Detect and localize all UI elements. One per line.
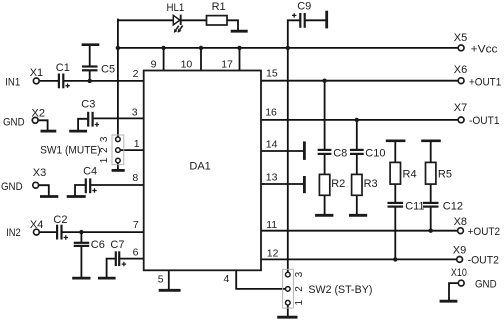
terminal X7 -OUT1 bbox=[454, 102, 500, 127]
ground bar X2 bbox=[41, 130, 57, 133]
svg-text:C6: C6 bbox=[91, 239, 105, 251]
ground bar pin 14 (vertical) bbox=[303, 141, 306, 160]
wire C5 upper stem bbox=[89, 45, 91, 65]
wire C10 branch upper bbox=[356, 120, 358, 149]
svg-text:C2: C2 bbox=[53, 214, 67, 226]
svg-text:2: 2 bbox=[294, 286, 305, 292]
svg-text:HL1: HL1 bbox=[167, 2, 185, 14]
svg-text:3: 3 bbox=[99, 136, 110, 142]
wire C8 branch upper bbox=[324, 81, 326, 149]
svg-text:IN1: IN1 bbox=[5, 77, 20, 89]
wire SW2 ground stem bbox=[287, 305, 289, 316]
wire LED cathode to R1 bbox=[181, 19, 207, 21]
resistor R5 bbox=[426, 162, 452, 184]
svg-text:GND: GND bbox=[475, 279, 497, 291]
wire pin 5 to ground bbox=[168, 270, 170, 289]
svg-text:3: 3 bbox=[294, 271, 305, 277]
wire X2 to ground bbox=[38, 120, 47, 130]
node junction bus/pin9 bbox=[161, 46, 165, 50]
capacitor C4 bbox=[83, 165, 97, 193]
wire pin 11 to X8 bbox=[261, 230, 457, 232]
svg-text:13: 13 bbox=[266, 171, 278, 183]
capacitor C6 bbox=[74, 239, 105, 251]
ground bar C4 bbox=[67, 195, 86, 198]
resistor R3 bbox=[352, 174, 378, 195]
svg-text:14: 14 bbox=[266, 139, 278, 151]
svg-text:R3: R3 bbox=[364, 178, 378, 190]
svg-text:GND: GND bbox=[3, 116, 25, 128]
svg-text:11: 11 bbox=[266, 219, 277, 231]
svg-text:+OUT2: +OUT2 bbox=[468, 226, 501, 238]
capacitor C12 bbox=[423, 201, 463, 213]
capacitor C2 bbox=[53, 214, 68, 240]
wire pin 12 to X9 bbox=[261, 258, 456, 260]
svg-text:X7: X7 bbox=[454, 102, 467, 114]
wire C3 left lead to ground bbox=[78, 119, 87, 130]
terminal X1 IN1 bbox=[5, 67, 43, 89]
terminal X10 GND bbox=[451, 267, 497, 290]
svg-text:C12: C12 bbox=[443, 201, 463, 213]
ground bar SW2 bbox=[277, 316, 297, 319]
svg-text:4: 4 bbox=[224, 273, 230, 285]
svg-text:2: 2 bbox=[133, 68, 139, 80]
svg-text:X1: X1 bbox=[30, 67, 43, 79]
ground bar C6 bbox=[72, 277, 90, 280]
wire SW1 pin2 to IC pin 1 bbox=[120, 149, 143, 151]
wire X3 to ground bbox=[39, 185, 49, 195]
wire +Vcc bus bbox=[118, 47, 458, 49]
svg-text:1: 1 bbox=[294, 299, 305, 305]
node junction bus/pin10 bbox=[199, 46, 203, 50]
ground bar pin 13 (vertical) bbox=[303, 176, 306, 193]
svg-text:C5: C5 bbox=[101, 63, 115, 75]
svg-text:7: 7 bbox=[133, 219, 139, 231]
svg-text:X4: X4 bbox=[30, 219, 43, 231]
svg-text:15: 15 bbox=[266, 68, 278, 80]
ground bar R5 top bbox=[421, 140, 441, 143]
svg-text:16: 16 bbox=[265, 106, 277, 118]
svg-text:X8: X8 bbox=[454, 216, 467, 228]
ground bar R4 top bbox=[386, 140, 406, 143]
wire left vertical bus x=118 bbox=[117, 20, 119, 138]
wire R3 to ground bbox=[356, 195, 358, 214]
node junction bus/C9 bbox=[286, 46, 290, 50]
wire C4 to pin 8 bbox=[92, 184, 144, 186]
svg-text:+OUT1: +OUT1 bbox=[469, 77, 501, 89]
svg-text:C9: C9 bbox=[297, 0, 311, 12]
svg-text:DA1: DA1 bbox=[189, 160, 210, 172]
svg-text:X3: X3 bbox=[33, 167, 46, 179]
LED HL1 bbox=[167, 2, 185, 33]
wire C6 lower stem bbox=[80, 247, 82, 277]
svg-text:X10: X10 bbox=[451, 267, 467, 279]
capacitor C3 bbox=[81, 98, 99, 126]
switch SW2 (ST-BY) bbox=[283, 269, 373, 308]
ground bar C3 bbox=[69, 130, 87, 133]
svg-text:C10: C10 bbox=[365, 148, 385, 160]
wire C4 left lead to ground bbox=[75, 185, 85, 196]
ground bar C7 bbox=[98, 277, 116, 280]
ground bar R3 bbox=[349, 214, 367, 217]
svg-text:R2: R2 bbox=[331, 178, 345, 190]
wire pin 14 bbox=[261, 150, 303, 152]
wire pin 17 bbox=[239, 48, 241, 71]
wire pin 4 to SW2 bbox=[236, 270, 285, 289]
node junction bus/left vertical bbox=[116, 46, 120, 50]
terminal X4 IN2 bbox=[6, 219, 43, 239]
wire R2 to ground bbox=[324, 195, 326, 214]
wire pin 10 bbox=[200, 48, 202, 71]
wire C11 to -OUT2 bbox=[394, 208, 396, 260]
node junction C11/-OUT2 bbox=[393, 257, 397, 261]
wire R5 to C12 bbox=[430, 184, 432, 202]
IC DA1 bbox=[144, 71, 261, 271]
wire C9 right lead bbox=[305, 19, 326, 21]
wire IN1 to C1 bbox=[39, 80, 58, 82]
svg-text:2: 2 bbox=[99, 147, 110, 153]
svg-text:1: 1 bbox=[134, 138, 140, 150]
svg-text:10: 10 bbox=[181, 58, 193, 70]
svg-text:17: 17 bbox=[221, 58, 233, 70]
ground bar SW1 bbox=[112, 169, 125, 172]
wire X10 to ground bbox=[449, 283, 458, 300]
svg-text:C11: C11 bbox=[405, 201, 424, 213]
wire R1 right to ground bbox=[227, 20, 238, 30]
wire pin 16 to X7 bbox=[261, 119, 458, 121]
capacitor C7 bbox=[110, 239, 126, 266]
node junction C12/+OUT2 bbox=[429, 229, 433, 233]
svg-text:C8: C8 bbox=[333, 147, 347, 159]
wire R4 to C11 bbox=[394, 184, 396, 202]
svg-text:R1: R1 bbox=[212, 1, 226, 13]
capacitor C10 bbox=[350, 148, 385, 160]
ground bar R1 bbox=[231, 30, 248, 33]
wire C10 to R3 bbox=[356, 155, 358, 174]
wire C7 to pin 6 bbox=[120, 258, 144, 260]
svg-text:GND: GND bbox=[1, 181, 23, 193]
svg-text:1: 1 bbox=[99, 157, 110, 163]
svg-text:-OUT1: -OUT1 bbox=[469, 115, 500, 127]
wire C5 lower stem bbox=[89, 71, 91, 81]
wire C6 upper stem bbox=[80, 232, 82, 242]
capacitor C5 bbox=[82, 45, 115, 76]
svg-text:X2: X2 bbox=[32, 108, 45, 120]
terminal X2 GND bbox=[3, 108, 45, 129]
node junction C10/-OUT1 bbox=[355, 118, 359, 122]
ground bar C9 (vertical) bbox=[325, 11, 328, 29]
wire pin 9 bbox=[163, 48, 165, 71]
svg-text:6: 6 bbox=[133, 246, 139, 258]
capacitor C1 bbox=[56, 62, 70, 88]
svg-text:C4: C4 bbox=[83, 165, 97, 177]
wire C8 to R2 bbox=[324, 155, 326, 174]
svg-text:C7: C7 bbox=[110, 239, 124, 251]
wire SW1 ground stem bbox=[117, 163, 119, 170]
svg-text:R5: R5 bbox=[438, 168, 452, 180]
node junction C6/IN2 bbox=[79, 230, 83, 234]
capacitor C9 bbox=[292, 0, 311, 28]
wire right vertical bus x=288 bbox=[287, 48, 289, 273]
switch SW1 (MUTE) bbox=[40, 135, 124, 165]
svg-text:C1: C1 bbox=[56, 62, 70, 74]
svg-text:X9: X9 bbox=[453, 245, 466, 257]
node junction bus/pin17 bbox=[237, 46, 241, 50]
ground bar pin 5 bbox=[159, 289, 181, 292]
wire pin 13 bbox=[261, 183, 303, 185]
wire R4 top lead bbox=[394, 142, 396, 163]
svg-text:X6: X6 bbox=[454, 64, 467, 76]
wire IN2 to C2 bbox=[40, 231, 57, 233]
wire C9 left lead bbox=[288, 20, 299, 48]
svg-text:-OUT2: -OUT2 bbox=[468, 255, 499, 267]
node junction C8/+OUT1 bbox=[322, 79, 326, 83]
terminal X9 -OUT2 bbox=[453, 245, 499, 267]
ground bar X3 bbox=[40, 195, 58, 198]
svg-text:5: 5 bbox=[158, 274, 164, 286]
wire C3 to pin 3 bbox=[93, 117, 144, 119]
wire top-left horizontal to LED bbox=[118, 19, 173, 21]
terminal X5 +Vcc bbox=[454, 32, 498, 55]
ground bar X10 bbox=[440, 300, 458, 303]
wire C12 to +OUT2 bbox=[430, 208, 432, 231]
svg-text:+Vcc: +Vcc bbox=[471, 43, 498, 55]
wire C7 left lead to ground bbox=[107, 259, 115, 277]
terminal X8 +OUT2 bbox=[454, 216, 501, 238]
terminal X6 +OUT1 bbox=[454, 64, 501, 89]
capacitor C8 bbox=[318, 147, 348, 159]
ground bar R2 bbox=[315, 214, 333, 217]
svg-text:12: 12 bbox=[267, 247, 279, 259]
svg-text:C3: C3 bbox=[81, 98, 95, 110]
terminal X3 GND bbox=[1, 167, 46, 193]
svg-text:9: 9 bbox=[151, 58, 157, 70]
svg-text:X5: X5 bbox=[454, 32, 467, 44]
resistor R2 bbox=[319, 174, 345, 195]
resistor R4 bbox=[390, 162, 416, 184]
svg-text:IN2: IN2 bbox=[6, 227, 21, 239]
resistor R1 bbox=[207, 1, 228, 25]
wire C1 to pin 2 bbox=[64, 80, 144, 82]
svg-text:R4: R4 bbox=[403, 168, 417, 180]
wire R5 top lead bbox=[430, 142, 432, 163]
capacitor C11 bbox=[388, 201, 425, 213]
svg-text:SW1 (MUTE): SW1 (MUTE) bbox=[40, 145, 101, 157]
svg-text:SW2 (ST-BY): SW2 (ST-BY) bbox=[308, 284, 372, 296]
wire C2 to pin 7 bbox=[62, 231, 143, 233]
svg-text:8: 8 bbox=[132, 172, 138, 184]
wire pin 15 to X6 bbox=[261, 80, 458, 82]
svg-text:3: 3 bbox=[132, 106, 138, 118]
node junction C5/IN1 bbox=[88, 79, 92, 83]
